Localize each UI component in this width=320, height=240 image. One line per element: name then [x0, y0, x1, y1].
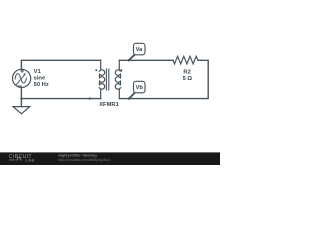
watermark text	[58, 153, 110, 162]
core	[106, 69, 108, 90]
svg-text:sine: sine	[34, 76, 46, 82]
phasing dot secondary	[120, 69, 122, 71]
probe flag Va	[129, 43, 145, 60]
node junction at primary bottom lead	[89, 97, 91, 99]
wire source bottom	[20, 88, 22, 99]
node junction Va tap	[128, 59, 130, 61]
resistor R2	[173, 56, 198, 64]
wire top-left rail	[21, 60, 100, 69]
watermark CircuitLab logo	[9, 154, 35, 163]
probe flag Vb	[129, 81, 145, 98]
svg-text:XFMR1: XFMR1	[99, 102, 119, 108]
svg-text:V1: V1	[34, 69, 42, 75]
voltage source V1	[13, 69, 31, 87]
transformer XFMR1	[95, 60, 122, 98]
svg-text:50 Hz: 50 Hz	[34, 82, 49, 88]
svg-text:Vb: Vb	[136, 85, 144, 91]
svg-text:Va: Va	[136, 47, 143, 53]
label XFMR1	[99, 102, 119, 108]
svg-text:http://circuitlab.com/c6b8y4oy: http://circuitlab.com/c6b8y4oy2tx4	[58, 158, 110, 162]
ground	[13, 99, 30, 114]
node junction Vb tap	[128, 97, 130, 99]
svg-text:mightyvolt9er / BenGuy: mightyvolt9er / BenGuy	[58, 153, 97, 157]
node junction at source bottom	[20, 97, 22, 99]
svg-text:LAB: LAB	[26, 158, 35, 163]
primary winding	[99, 60, 104, 98]
wire bottom-left rail	[21, 98, 100, 100]
svg-text:R2: R2	[183, 69, 190, 75]
label R2 value	[183, 69, 193, 82]
secondary winding	[115, 60, 120, 98]
svg-text:5 Ω: 5 Ω	[183, 76, 193, 82]
wire resistor to right side and bottom rail	[119, 60, 208, 98]
phasing dot primary	[95, 69, 97, 71]
wire secondary top to resistor	[119, 59, 173, 61]
watermark bar	[0, 152, 220, 165]
label V1 value	[34, 69, 49, 88]
